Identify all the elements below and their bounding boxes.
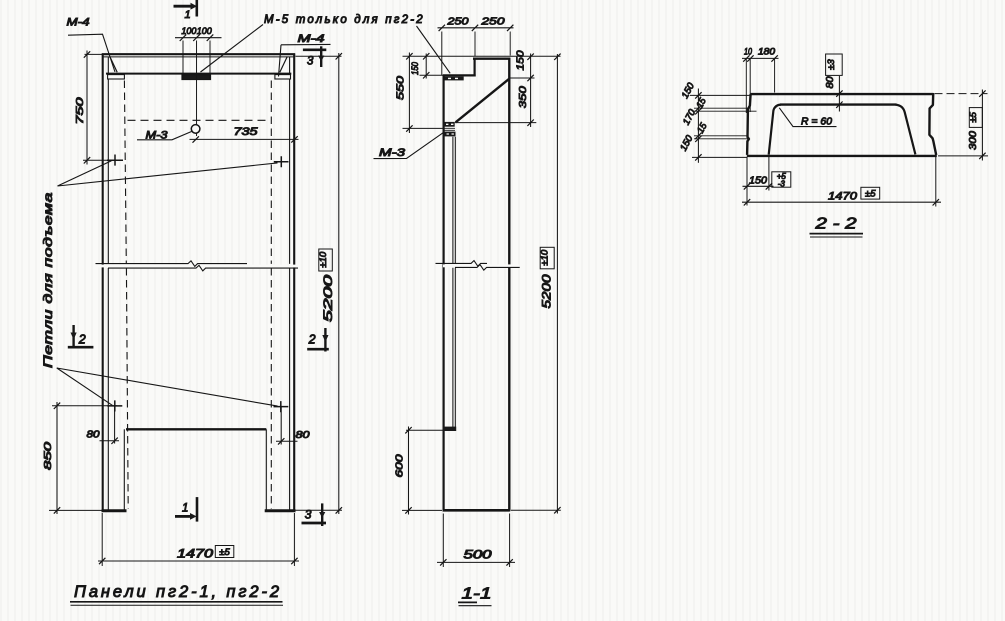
tolerance box plus-minus 3 bbox=[826, 54, 843, 75]
svg-text:1-1: 1-1 bbox=[462, 586, 492, 603]
tolerance box plus-minus 5 2-2 bbox=[861, 187, 880, 199]
svg-text:3: 3 bbox=[305, 508, 312, 522]
title 2-2 bbox=[810, 216, 864, 238]
lifting loop cross row1 left bbox=[107, 155, 123, 166]
anchor plate M-5 center dark bar bbox=[182, 75, 211, 80]
svg-text:±3: ±3 bbox=[826, 59, 837, 70]
section mark 1 top bbox=[174, 0, 198, 17]
leader M-3 1-1 bbox=[374, 133, 444, 159]
wire right inner rib line bbox=[289, 57, 291, 511]
wire left edge 1-1 bbox=[443, 76, 445, 512]
svg-text:550: 550 bbox=[394, 76, 406, 100]
dashed level line bbox=[128, 119, 271, 121]
wire top edge thin second line bbox=[103, 56, 294, 58]
anchor plates M-3 in section 1-1 bbox=[443, 122, 456, 137]
wire flange end step bar 1-1 bbox=[443, 427, 456, 431]
wire left leg bottom bar bbox=[102, 509, 127, 512]
leader M-4 left bbox=[68, 34, 115, 72]
svg-text:80: 80 bbox=[296, 430, 311, 441]
anchor plate M-5 in section 1-1 bbox=[443, 77, 464, 81]
dimension 80 right bbox=[276, 407, 298, 445]
leader R=60 bbox=[779, 108, 836, 127]
svg-text:±5: ±5 bbox=[865, 189, 876, 200]
section 2-2 view bbox=[678, 47, 988, 238]
leader loops top pair bbox=[58, 161, 278, 186]
svg-text:1470: 1470 bbox=[177, 549, 214, 561]
tolerance box plus-minus 5 right bbox=[968, 108, 982, 128]
wire step surface 1-1 bbox=[443, 74, 476, 76]
tolerance box plus5 minus3 bbox=[772, 172, 791, 189]
wire notch side lines bbox=[183, 74, 210, 80]
svg-text:R = 60: R = 60 bbox=[801, 116, 832, 128]
svg-text:250: 250 bbox=[446, 16, 468, 28]
tolerance box plus-minus 10 1-1 bbox=[540, 247, 555, 268]
leader M-3 front bbox=[137, 132, 192, 140]
wire flange inner double line 1-1 bbox=[453, 137, 455, 427]
wire right outer edge bbox=[293, 55, 295, 512]
svg-text:150: 150 bbox=[516, 50, 527, 71]
lifting loop cross row2 right bbox=[274, 401, 289, 412]
svg-text:М-3: М-3 bbox=[379, 147, 406, 159]
wire left inner rib line bbox=[107, 57, 109, 511]
wire bottom cutout line bbox=[126, 428, 266, 430]
dimension 750 left bbox=[83, 51, 111, 165]
svg-text:100: 100 bbox=[181, 26, 197, 37]
svg-text:Панели пг2-1, пг2-2: Панели пг2-1, пг2-2 bbox=[74, 583, 280, 601]
svg-text:2: 2 bbox=[78, 333, 86, 347]
wire step vertical 1-1 bbox=[474, 58, 476, 77]
svg-text:15: 15 bbox=[695, 121, 710, 136]
anchor plate M-4 left rect bbox=[108, 75, 125, 79]
svg-text:500: 500 bbox=[464, 550, 493, 562]
dimension 1470 front bbox=[98, 513, 299, 566]
wire left outer edge bbox=[102, 55, 104, 512]
leader loops bottom pair bbox=[57, 368, 278, 406]
svg-text:750: 750 bbox=[74, 97, 86, 124]
dimension 150 bottom left 2-2 bbox=[743, 157, 774, 206]
tick at circle bottom bbox=[193, 136, 199, 142]
svg-text:850: 850 bbox=[42, 442, 54, 470]
svg-text:3: 3 bbox=[307, 56, 314, 68]
dimension 735 bbox=[190, 136, 299, 142]
dimension 250 250 top bbox=[438, 25, 514, 75]
wire centerline of section 1 bbox=[196, 41, 198, 137]
leader M-4 right bbox=[279, 44, 331, 76]
dimension 550 left 1-1 bbox=[403, 53, 443, 134]
dimension 100 100 bbox=[175, 34, 222, 74]
dimension 850 bbox=[49, 402, 117, 514]
wire left leg inner edge below cutout bbox=[123, 429, 125, 510]
wire left corner bevel bbox=[110, 57, 117, 73]
wire inner top flange line bbox=[106, 73, 291, 75]
dimension 150 right 1-1 bbox=[455, 54, 537, 128]
svg-text:±5: ±5 bbox=[219, 547, 230, 558]
svg-text:300: 300 bbox=[968, 131, 979, 150]
wire bottom edge 2-2 bbox=[747, 155, 937, 157]
dimension 150 left 1-1 bbox=[420, 53, 445, 78]
svg-text:350: 350 bbox=[517, 86, 529, 108]
dimension 5200 front right bbox=[296, 53, 343, 514]
svg-text:5200: 5200 bbox=[321, 274, 335, 322]
dimension 5200 1-1 bbox=[511, 54, 561, 514]
lifting loop cross row2 left bbox=[107, 400, 122, 411]
svg-text:80: 80 bbox=[825, 76, 836, 88]
svg-text:10: 10 bbox=[744, 47, 752, 57]
svg-text:-3: -3 bbox=[778, 180, 786, 189]
section mark 3 top bbox=[303, 46, 326, 67]
tolerance box plus-minus 5 front bbox=[215, 546, 234, 559]
svg-text:М-4: М-4 bbox=[67, 17, 90, 29]
wire top extension thin line bbox=[403, 55, 561, 57]
svg-text:735: 735 bbox=[234, 126, 259, 138]
svg-text:±10: ±10 bbox=[318, 251, 329, 267]
svg-text:2: 2 bbox=[308, 333, 316, 347]
break line band front view bbox=[96, 261, 299, 271]
break line band 1-1 bbox=[436, 261, 520, 271]
wire right leg inner edge below cutout bbox=[265, 429, 267, 510]
wire bottom edge 1-1 bbox=[443, 509, 510, 512]
wire right dashed hidden rib line bbox=[270, 81, 272, 509]
section mark 2 left bbox=[68, 325, 94, 348]
svg-text:5200: 5200 bbox=[542, 274, 554, 309]
svg-text:150: 150 bbox=[680, 81, 698, 101]
svg-text:100: 100 bbox=[197, 26, 213, 37]
svg-text:Петли для подъема: Петли для подъема bbox=[43, 192, 55, 368]
svg-text:М-5 только для пг2-2: М-5 только для пг2-2 bbox=[264, 14, 423, 26]
wire flange underside 2-2 bbox=[780, 103, 897, 105]
wire top edge thick bbox=[102, 53, 296, 55]
leader M-5 to front notch bbox=[201, 25, 264, 73]
front view panel outline bbox=[102, 54, 296, 511]
section mark 1 bottom bbox=[175, 497, 197, 521]
dimension 1470 2-2 bbox=[742, 157, 941, 207]
svg-text:600: 600 bbox=[394, 454, 406, 477]
dimension 80 left bbox=[100, 406, 120, 444]
wire right leg bottom bar bbox=[265, 509, 296, 512]
dimension 300 right 2-2 bbox=[935, 90, 989, 161]
wire section 2-2 outline bbox=[747, 94, 936, 155]
svg-text:180: 180 bbox=[758, 47, 775, 57]
svg-text:80: 80 bbox=[87, 430, 101, 441]
svg-text:М-4: М-4 bbox=[298, 33, 325, 45]
wire haunch diagonal 1-1 bbox=[456, 79, 509, 122]
section mark 3 bottom bbox=[302, 503, 327, 526]
dimension 600 1-1 bbox=[402, 427, 443, 515]
tolerance box plus-minus 10 front bbox=[318, 249, 333, 271]
title 1-1 bbox=[458, 586, 492, 606]
wire right edge 1-1 bbox=[508, 58, 510, 512]
wire left rib inner face with fillet bbox=[769, 105, 781, 155]
dimension chain left 150 15 170 15 150 bbox=[690, 89, 757, 163]
wire top edge 1-1 bbox=[473, 58, 510, 60]
svg-text:150: 150 bbox=[410, 61, 421, 75]
dimension 500 bottom 1-1 bbox=[437, 514, 515, 568]
dimension 10 and 180 top bbox=[742, 55, 779, 113]
anchor plate M-4 right rect bbox=[275, 75, 291, 79]
section 1-1 view bbox=[374, 16, 561, 606]
svg-text:±5: ±5 bbox=[968, 111, 979, 122]
svg-text:1: 1 bbox=[182, 503, 188, 515]
wire right corner bevel bbox=[280, 57, 288, 73]
svg-text:±10: ±10 bbox=[540, 249, 551, 265]
section mark 2 right bbox=[307, 328, 329, 352]
svg-text:250: 250 bbox=[480, 16, 505, 28]
title Paneli PG2-1 PG2-2 bbox=[70, 583, 283, 605]
svg-text:150: 150 bbox=[749, 175, 767, 187]
wire left dashed hidden rib line bbox=[124, 81, 128, 509]
wire right rib inner face with fillet bbox=[896, 105, 916, 155]
svg-text:1: 1 bbox=[185, 9, 191, 21]
svg-text:150: 150 bbox=[678, 133, 696, 153]
dimension 80 flange thickness bbox=[836, 76, 842, 112]
leader M-5 to section 1-1 step bbox=[417, 26, 451, 73]
lifting loop cross row1 right bbox=[274, 156, 289, 167]
svg-text:2 - 2: 2 - 2 bbox=[814, 216, 856, 233]
svg-text:1470: 1470 bbox=[828, 191, 858, 203]
anchor M-3 circle front view bbox=[191, 125, 200, 134]
